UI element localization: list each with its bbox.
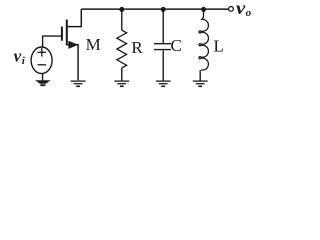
node junction dot above L [201,7,206,12]
wire below vi [42,73,44,80]
wire from rail to capacitor [162,9,164,43]
source vi minus sign [38,64,47,66]
svg-text:o: o [246,7,252,19]
svg-text:R: R [131,38,143,57]
svg-text:M: M [86,35,101,54]
label vi [14,47,26,67]
capacitor C bottom plate [154,49,171,51]
transistor M source arrow [68,41,78,49]
node junction dot above R [119,7,124,12]
capacitor C top plate [154,43,171,45]
wire from rail to resistor [121,9,123,30]
wire gate lead from source to gate [43,36,62,47]
ground under L [193,81,208,86]
transistor M drain lead [67,9,81,27]
svg-text:v: v [14,47,22,66]
ground under R [114,81,129,86]
svg-text:L: L [214,37,224,56]
transistor M gate bar [61,27,63,41]
wire top rail [81,8,228,10]
transistor M source lead [67,45,78,80]
svg-text:i: i [22,55,26,67]
resistor R zigzag [117,30,127,68]
wire below resistor [121,68,123,81]
label vo [236,0,252,19]
ground under C [156,81,171,86]
wire below inductor [199,70,201,81]
node output terminal open circle [229,7,234,12]
ground under vi (solid style) [35,80,50,86]
inductor L coil [199,9,209,70]
node junction dot above C [161,7,166,12]
source vi plus sign [38,48,47,57]
ground under M source [71,81,86,86]
source vi circle [31,47,52,74]
svg-text:C: C [171,36,182,55]
transistor M channel bar [66,20,68,46]
wire below capacitor [162,50,164,81]
